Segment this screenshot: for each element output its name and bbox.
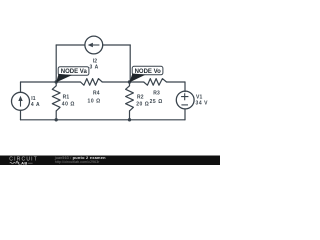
- svg-text:20 Ω: 20 Ω: [136, 101, 149, 107]
- svg-text:V1: V1: [196, 94, 203, 100]
- svg-text:4 A: 4 A: [31, 102, 40, 108]
- wire vertical from node A up to top rail: [55, 45, 57, 82]
- resistor R4: [81, 79, 103, 86]
- svg-text:R2: R2: [137, 94, 144, 100]
- node flag NODE Va: [56, 67, 89, 83]
- wire mid rail R3 left lead: [130, 81, 144, 83]
- resistor R3: [144, 79, 167, 86]
- wire left rail below I1: [20, 110, 22, 120]
- current source I2: [85, 36, 103, 54]
- node flag NODE Vo: [129, 66, 163, 82]
- wire R2 top lead: [129, 82, 131, 86]
- wire top rail left of I2: [56, 44, 85, 46]
- node junction dot Vo: [128, 80, 131, 83]
- svg-text:3 A: 3 A: [90, 65, 99, 71]
- wire R1 top lead: [55, 82, 57, 86]
- wire bottom rail: [21, 119, 186, 121]
- svg-text:25 Ω: 25 Ω: [150, 99, 163, 105]
- wire V1 bottom lead: [184, 109, 186, 119]
- wire left rail above I1: [20, 82, 22, 92]
- wire R2 bottom lead: [129, 111, 131, 120]
- wire R1 bottom lead: [55, 111, 57, 120]
- resistor R1: [52, 86, 60, 111]
- svg-text:NODE Va: NODE Va: [61, 69, 88, 75]
- footer credit text: [54, 155, 106, 164]
- current source I1: [12, 92, 30, 110]
- node junction dot R1 bottom: [55, 118, 58, 121]
- svg-text:LAB: LAB: [18, 161, 27, 165]
- svg-text:R4: R4: [93, 90, 100, 96]
- CircuitLab logo: [9, 156, 38, 165]
- wire vertical from top rail down to node B: [129, 45, 131, 82]
- svg-text:R3: R3: [153, 91, 160, 97]
- svg-text:http://circuitlab.com/c2963r: http://circuitlab.com/c2963r: [55, 160, 100, 164]
- wire mid rail R3 right lead: [167, 81, 186, 83]
- node junction dot Va: [55, 80, 58, 83]
- svg-text:R1: R1: [63, 95, 70, 101]
- svg-text:10 Ω: 10 Ω: [88, 98, 101, 104]
- wire mid rail R4 right lead: [102, 81, 129, 83]
- footer bar: [0, 156, 220, 166]
- svg-text:NODE Vo: NODE Vo: [135, 69, 162, 75]
- wire mid rail R4 left lead: [56, 81, 80, 83]
- resistor R2: [126, 86, 134, 111]
- wire V1 top lead: [184, 82, 186, 92]
- wire top rail right of I2: [103, 44, 131, 46]
- svg-text:I2: I2: [93, 58, 98, 64]
- node junction dot R2 bottom: [128, 118, 131, 121]
- wire mid rail left segment: [21, 81, 57, 83]
- svg-text:34 V: 34 V: [196, 101, 209, 107]
- voltage source V1: [176, 91, 194, 109]
- svg-text:40 Ω: 40 Ω: [62, 101, 75, 107]
